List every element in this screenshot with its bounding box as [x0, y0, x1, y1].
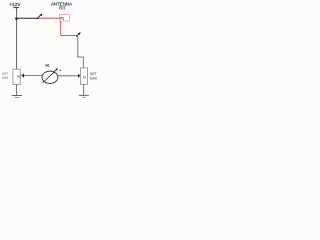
svg-text:2: 2 [17, 75, 21, 78]
svg-text:M1: M1 [45, 62, 49, 67]
junction dot [15, 17, 18, 20]
SET MAX label [90, 71, 97, 80]
ANTENNA POT label [51, 2, 73, 12]
wire: arrow A to P1 left pin (red) [39, 17, 60, 19]
svg-text:P1: P1 [60, 16, 64, 21]
wire: meter to R2 wiper [58, 75, 79, 77]
wire: junction to arrow A (black segment) [17, 17, 39, 19]
annotation arrow A [37, 14, 43, 19]
wire: +12V rail down to trimmer R1 [16, 8, 18, 70]
wire: P1 wiper down (red) [60, 21, 62, 35]
+12V rail bar [13, 7, 19, 9]
trimmer R2 body (SET MAX) [81, 68, 88, 85]
wire: right side down with jog [78, 35, 84, 68]
ground left [12, 96, 22, 98]
meter polarity + [59, 70, 61, 72]
wire: R1 wiper to meter [24, 75, 43, 77]
svg-text:2: 2 [82, 76, 86, 79]
svg-text:MIN: MIN [2, 75, 9, 80]
trimmer R1 body (SET MIN) [13, 69, 20, 84]
wire: wiper run right (red) [61, 34, 78, 36]
svg-text:MAX: MAX [90, 75, 97, 80]
SET MIN label [2, 71, 9, 80]
R2 wiper arrow [78, 74, 80, 79]
meter M1 body [42, 71, 58, 83]
svg-text:POT: POT [59, 6, 66, 12]
meter needle [43, 68, 58, 83]
R1 wiper arrow [21, 73, 24, 77]
annotation arrow B [76, 32, 81, 37]
svg-text:+12V: +12V [9, 2, 21, 8]
potentiometer P1 body [60, 15, 70, 22]
wire: R1 to ground [16, 85, 18, 96]
ground right [79, 95, 89, 97]
wire: R2 to ground [83, 84, 85, 95]
